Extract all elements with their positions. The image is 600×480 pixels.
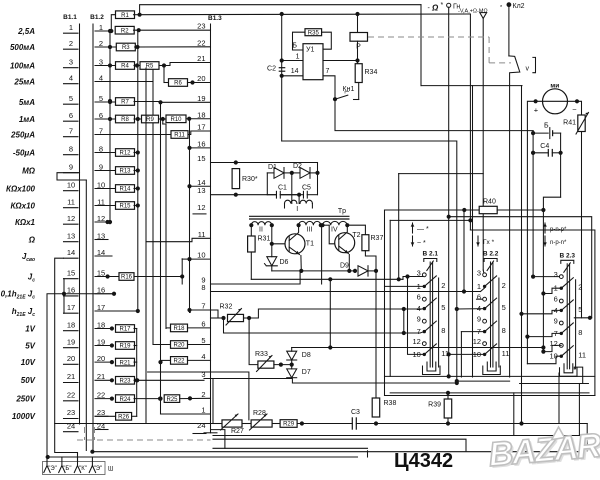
svg-text:3: 3	[554, 270, 558, 279]
svg-text:−: −	[572, 105, 577, 114]
svg-text:10: 10	[412, 350, 420, 359]
wire B1.2 pin 4	[95, 81, 153, 83]
svg-text:11: 11	[97, 197, 105, 206]
svg-text:R1: R1	[121, 13, 129, 19]
transformer winding III	[299, 221, 321, 225]
svg-text:16: 16	[97, 286, 105, 295]
svg-text:R28: R28	[253, 410, 266, 417]
wire B1.2 pin 8	[95, 152, 116, 154]
bus bottom y376.4	[385, 375, 595, 377]
svg-text:R24: R24	[119, 397, 131, 403]
svg-text:5: 5	[578, 305, 582, 314]
switch B1.1	[63, 14, 79, 432]
svg-text:7: 7	[69, 126, 73, 135]
svg-text:24: 24	[197, 421, 205, 430]
svg-text:1V: 1V	[25, 324, 35, 333]
svg-text:2: 2	[201, 390, 205, 399]
wire meter plus rail	[532, 131, 534, 277]
svg-text:17: 17	[67, 303, 75, 312]
svg-text:18: 18	[197, 110, 205, 119]
relay linkage dashed	[368, 36, 489, 38]
bus y448.3	[213, 447, 368, 449]
svg-text:18: 18	[67, 320, 75, 329]
svg-text:R8: R8	[121, 117, 129, 123]
svg-text:1: 1	[296, 54, 300, 61]
wire B1.3 r3 tick down	[212, 379, 214, 424]
svg-text:13: 13	[197, 186, 205, 195]
svg-text:R39: R39	[428, 402, 441, 409]
wire x521.5 rail	[521, 86, 523, 424]
svg-text:6: 6	[554, 295, 558, 304]
resistor R5	[140, 62, 159, 70]
svg-text:R10: R10	[170, 117, 182, 123]
wire R40 node down	[463, 210, 465, 292]
wire B2.3 c1 feed	[541, 291, 545, 295]
svg-text:1: 1	[69, 23, 73, 32]
svg-text:11: 11	[198, 230, 206, 239]
svg-text:8: 8	[441, 326, 445, 335]
svg-text:R38: R38	[384, 400, 397, 407]
svg-text:1: 1	[477, 282, 481, 291]
svg-text:R18: R18	[173, 326, 185, 332]
wire meter plus down	[527, 101, 535, 363]
wire B1.2 pin 9	[95, 170, 116, 172]
resistor R8	[116, 115, 135, 123]
wire row13 rail to doubler	[211, 194, 300, 196]
bus y220.4	[390, 219, 470, 221]
switch bank B 2.3	[549, 252, 586, 376]
switch Kl2 contact	[508, 7, 510, 56]
wire rail x136.7	[136, 329, 138, 417]
svg-text:23: 23	[97, 408, 105, 417]
emitter bus D6-D9 row	[272, 270, 355, 272]
svg-text:R34: R34	[365, 69, 378, 76]
svg-text:R21: R21	[119, 360, 131, 366]
svg-text:1000V: 1000V	[12, 412, 36, 421]
svg-text:Tр: Tр	[338, 208, 346, 215]
wire T2 base from winding III	[321, 224, 329, 226]
transformer winding I	[291, 173, 293, 204]
svg-text:1: 1	[417, 282, 421, 291]
wire C3 bus wrap	[586, 424, 588, 451]
svg-text:11: 11	[502, 349, 510, 358]
wire B2.1 c7 vert link	[403, 309, 405, 333]
wire R32 down to R33	[249, 318, 258, 365]
bus pin9 T1 emitter	[211, 271, 301, 284]
wire x579.4 link	[578, 384, 580, 436]
wire R1 top bus	[140, 5, 421, 15]
wire bus y457	[46, 455, 50, 459]
svg-text:12: 12	[412, 337, 420, 346]
svg-text:5: 5	[441, 303, 445, 312]
svg-text:Ω: Ω	[28, 235, 36, 244]
mode icon B2.1 AC	[412, 236, 414, 246]
svg-text:— *: — *	[417, 226, 429, 233]
svg-text:C2: C2	[267, 65, 276, 72]
wire meter minus to R41	[577, 101, 582, 115]
svg-text:8: 8	[502, 326, 506, 335]
svg-text:I: I	[296, 206, 298, 213]
wire B1.2 pin 14	[95, 255, 112, 257]
bus R32 right to B2 c4 row	[249, 309, 421, 318]
resistor R16	[106, 274, 110, 278]
wire R5 to pin21	[164, 63, 211, 66]
wire rail x160 down	[160, 102, 162, 415]
svg-text:D8: D8	[302, 352, 311, 359]
resistor R21	[110, 360, 114, 364]
svg-text:4: 4	[99, 73, 103, 82]
bus R39 top row	[390, 392, 589, 394]
svg-text:7: 7	[417, 327, 421, 336]
svg-text:7: 7	[201, 302, 205, 311]
svg-text:24: 24	[67, 421, 75, 430]
wire B1.2 pin 7	[95, 134, 171, 136]
terminal block Sh	[43, 457, 114, 475]
bus R31 emitter supply	[251, 278, 403, 280]
svg-text:12: 12	[549, 339, 557, 348]
svg-text:5: 5	[201, 336, 205, 345]
resistor R10	[166, 115, 186, 123]
svg-text:16: 16	[197, 139, 205, 148]
resistor R4	[116, 62, 135, 70]
resistor R25	[164, 395, 180, 403]
resistor R26	[116, 413, 132, 421]
svg-text:Ш: Ш	[108, 467, 114, 473]
wire row15 rail to doubler	[211, 162, 318, 164]
svg-text:100мА: 100мА	[10, 61, 35, 70]
wire rail x137.8	[137, 30, 139, 311]
svg-text:R20: R20	[173, 343, 185, 349]
wire B2.2 c4 feed	[457, 308, 485, 310]
wire B1.2 pin 19	[95, 345, 112, 347]
bus y85.6	[421, 85, 522, 87]
svg-text:22: 22	[197, 38, 205, 47]
wire x390 rail	[389, 220, 391, 376]
wire rail x166 down	[162, 119, 164, 124]
resistor R13	[116, 167, 135, 175]
wire row16 to E pins	[47, 294, 64, 457]
svg-text:R2: R2	[121, 28, 129, 34]
bus bottom y381.1	[457, 380, 510, 382]
svg-text:B1.2: B1.2	[90, 14, 104, 21]
svg-text:R30*: R30*	[242, 176, 258, 183]
svg-text:R29: R29	[283, 422, 295, 428]
wire doubler right side	[317, 163, 319, 195]
svg-text:R25: R25	[166, 397, 178, 403]
resistor R19	[110, 343, 114, 347]
wire C4 loop to x543	[543, 197, 560, 351]
bus y173.6	[399, 173, 484, 175]
svg-text:17: 17	[197, 123, 205, 132]
wire rail x146	[145, 68, 147, 424]
wire B1.2 pin 6	[95, 118, 116, 120]
wire y14 rail corner down	[469, 14, 471, 230]
wire D9 down to R38	[375, 271, 377, 398]
wire bracket rows 15-17	[63, 279, 65, 314]
svg-text:15: 15	[67, 268, 75, 277]
wire Kn1 down and right to battery bus	[335, 99, 533, 130]
watermark	[487, 423, 600, 476]
bus D8 top row	[292, 347, 544, 349]
svg-text:17: 17	[97, 303, 105, 312]
svg-text:B1.3: B1.3	[208, 15, 222, 22]
svg-text:R37: R37	[371, 235, 384, 242]
svg-text:50V: 50V	[21, 376, 36, 385]
wire R28 top feed	[148, 372, 249, 420]
svg-text:12: 12	[473, 337, 481, 346]
svg-text:24: 24	[97, 421, 105, 430]
resistor R11	[171, 131, 188, 139]
wire Gn rail	[448, 7, 450, 377]
wire B1.2 pin 5	[95, 101, 116, 103]
wire B2.3 c7 feed	[527, 333, 561, 336]
svg-text:B1.1: B1.1	[63, 14, 77, 21]
svg-text:2: 2	[578, 283, 582, 292]
svg-text:2: 2	[502, 281, 506, 290]
svg-text:R14: R14	[119, 187, 131, 193]
svg-text:B 2.3: B 2.3	[560, 252, 576, 259]
wire T1 base	[272, 243, 289, 245]
svg-text:8: 8	[578, 328, 582, 337]
mode icons B 2.1	[0, 0, 1, 1]
svg-text:11: 11	[441, 349, 449, 358]
wire battery right down	[560, 133, 562, 197]
wire 50V row to D7 row	[137, 379, 204, 381]
svg-text:-V,A,+Ω-MΩ: -V,A,+Ω-MΩ	[458, 9, 488, 15]
wire B1.2 pin 13	[95, 239, 108, 241]
svg-text:8: 8	[99, 144, 103, 153]
svg-text:21: 21	[197, 54, 205, 63]
bus y439.2	[213, 439, 466, 451]
wire B1.3 pin16	[190, 147, 211, 149]
resistor R39	[444, 399, 452, 418]
switch B1.2	[90, 14, 105, 452]
svg-text:R33: R33	[255, 351, 268, 358]
wire bus y424	[55, 423, 213, 425]
svg-text:p-n-p*: p-n-p*	[550, 227, 567, 233]
bus D7 bottom / 50V row	[204, 379, 457, 384]
mode icon B2.3 pnp	[544, 223, 546, 233]
wire B1.2 pin 18	[95, 328, 112, 330]
svg-text:R3: R3	[122, 45, 130, 51]
svg-text:2: 2	[441, 281, 445, 290]
svg-text:250μА: 250μА	[10, 130, 35, 139]
svg-text:1: 1	[99, 23, 103, 32]
terminal arrow jack	[480, 13, 487, 19]
svg-text:22: 22	[97, 390, 105, 399]
resistor R18	[166, 327, 172, 329]
svg-text:13: 13	[97, 231, 105, 240]
svg-text:23: 23	[197, 22, 205, 31]
wire B1.2 pin 22	[95, 398, 112, 400]
svg-text:~ *: ~ *	[417, 240, 426, 247]
svg-text:11: 11	[67, 197, 75, 206]
svg-text:Ω: Ω	[431, 4, 439, 13]
svg-text:25мА: 25мА	[13, 77, 35, 86]
svg-text:n-p-n*: n-p-n*	[550, 240, 567, 246]
svg-text:14: 14	[291, 68, 299, 75]
svg-text:6: 6	[417, 293, 421, 302]
resistor R1	[111, 15, 116, 31]
svg-text:6: 6	[477, 293, 481, 302]
svg-text:R17: R17	[119, 327, 131, 333]
resistor R34	[355, 64, 362, 83]
svg-text:R23: R23	[119, 379, 131, 385]
wire B1.3 pin14	[190, 185, 211, 187]
wire doubler left leg	[266, 173, 268, 195]
wire B1.2 pin 12	[95, 221, 110, 223]
resistor R15	[116, 202, 135, 210]
svg-text:R26: R26	[118, 415, 130, 421]
wire B1.3 pin11 jog	[146, 238, 211, 241]
wire B1.3 pin7 down	[189, 310, 191, 313]
svg-text:D6: D6	[280, 259, 289, 266]
svg-text:"К": "К"	[79, 466, 87, 472]
wire R5 down to R6	[163, 66, 165, 83]
svg-text:"Э": "Э"	[48, 466, 57, 472]
svg-text:5: 5	[502, 303, 506, 312]
bus y230 wrap right	[470, 230, 595, 396]
svg-text:v: v	[526, 66, 530, 73]
svg-text:4: 4	[417, 304, 421, 313]
svg-text:16: 16	[67, 286, 75, 295]
wire B2.2 c10 feed	[449, 353, 485, 355]
svg-text:9: 9	[99, 162, 103, 171]
svg-text:10: 10	[197, 251, 205, 260]
resistor R32	[211, 317, 224, 319]
wire row4 rail down	[152, 68, 154, 345]
svg-text:R6: R6	[174, 81, 182, 87]
wire B1.2 pin 20	[95, 361, 112, 363]
wire E-bus link	[367, 451, 369, 457]
wire B1.2 pin 16	[95, 293, 114, 295]
svg-text:250V: 250V	[15, 394, 35, 403]
wire top bus corner	[420, 5, 422, 86]
resistor R37	[347, 225, 365, 235]
svg-text:IV: IV	[331, 227, 338, 234]
svg-text:10V: 10V	[21, 358, 36, 367]
svg-text:*: *	[441, 2, 444, 9]
resistor R23	[110, 378, 114, 382]
resistor R35 feedback	[293, 32, 306, 50]
svg-text:21: 21	[67, 372, 75, 381]
bus y216.7 to right edge	[449, 217, 592, 318]
mode icon B2.3 npn	[544, 236, 546, 246]
svg-text:10: 10	[67, 180, 75, 189]
wire B1.2 pin 21	[95, 379, 112, 381]
svg-text:КΩх100: КΩх100	[6, 184, 36, 193]
wire R1 output bus y14	[140, 13, 471, 16]
range labels column	[1, 27, 36, 421]
switch bank B 2.2	[473, 251, 510, 375]
svg-text:R22: R22	[173, 359, 185, 365]
wire B2.1 c1 feed	[385, 285, 425, 287]
svg-text:20: 20	[97, 354, 105, 363]
wire B2.2 c7 feed	[461, 331, 484, 333]
resistor R30*	[234, 160, 238, 164]
wire row16 junction	[112, 292, 116, 296]
wire x559 down	[558, 373, 560, 424]
svg-text:III: III	[307, 227, 313, 234]
svg-text:19: 19	[197, 94, 205, 103]
svg-text:B 2.2: B 2.2	[483, 251, 499, 258]
svg-text:8: 8	[69, 144, 73, 153]
wire winding II right down	[271, 225, 273, 257]
resistor R9	[142, 115, 159, 123]
svg-text:3: 3	[69, 57, 73, 66]
svg-text:15: 15	[197, 154, 205, 163]
svg-text:3: 3	[477, 268, 481, 277]
svg-text:Гх *: Гх *	[483, 239, 495, 246]
svg-text:19: 19	[67, 337, 75, 346]
svg-text:21: 21	[97, 372, 105, 381]
svg-text:5: 5	[69, 94, 73, 103]
bus y395.5	[385, 395, 595, 397]
svg-text:МΩ: МΩ	[22, 166, 36, 175]
node row12 junction	[105, 220, 109, 224]
svg-text:1: 1	[201, 406, 205, 415]
resistor R31	[250, 225, 252, 236]
wire B2.3 right rail to node 5	[574, 317, 591, 319]
svg-text:R35: R35	[308, 30, 320, 36]
switch bank B 2.1	[412, 251, 449, 375]
svg-text:14: 14	[67, 248, 75, 257]
svg-text:R16: R16	[121, 275, 133, 281]
wire row1 B1.3	[161, 413, 211, 415]
svg-text:14: 14	[97, 248, 105, 257]
svg-text:+: +	[534, 106, 539, 115]
resistor R14	[116, 185, 135, 193]
resistor R24	[110, 397, 114, 401]
wire B2.3 c10 feed	[527, 356, 561, 364]
transformer winding II	[251, 222, 271, 226]
svg-text:R41: R41	[563, 120, 576, 127]
svg-text:9: 9	[477, 315, 481, 324]
resistor R17	[110, 326, 114, 330]
svg-text:T1: T1	[306, 241, 314, 248]
transformer winding IV	[323, 221, 348, 225]
wire B1.2 pin 23	[95, 415, 108, 417]
svg-text:9: 9	[69, 162, 73, 171]
svg-text:P: P	[356, 44, 361, 51]
svg-text:Б: Б	[292, 43, 297, 50]
wire MOhm row jog around B1.1	[57, 173, 86, 180]
svg-text:R31: R31	[258, 236, 271, 243]
svg-text:12: 12	[67, 214, 75, 223]
stub B2.2 c6	[477, 298, 483, 300]
svg-text:R15: R15	[119, 204, 131, 210]
svg-text:5: 5	[99, 94, 103, 103]
wire B1.2 pin 15	[95, 276, 119, 278]
svg-text:4: 4	[69, 73, 73, 82]
bus y435.5	[213, 435, 579, 437]
svg-text:-50μА: -50μА	[13, 148, 35, 157]
svg-text:18: 18	[97, 320, 105, 329]
wire R16 jog to pins 10/9	[181, 259, 183, 284]
svg-text:D2: D2	[293, 163, 302, 170]
svg-text:R40: R40	[483, 199, 496, 206]
bus R32 left to B2.1 c7 row	[224, 318, 421, 333]
svg-text:B 2.1: B 2.1	[423, 251, 439, 258]
mode icon B2.1 DC	[412, 223, 414, 233]
svg-text:8: 8	[201, 283, 205, 292]
wire row14 to K pin	[55, 258, 78, 462]
mode icons B 2.2	[0, 0, 1, 1]
wire pin24 drop	[211, 430, 225, 449]
svg-text:19: 19	[97, 337, 105, 346]
wire pin7 jog to R32	[211, 310, 224, 318]
wire x384.5 rail	[384, 210, 386, 396]
